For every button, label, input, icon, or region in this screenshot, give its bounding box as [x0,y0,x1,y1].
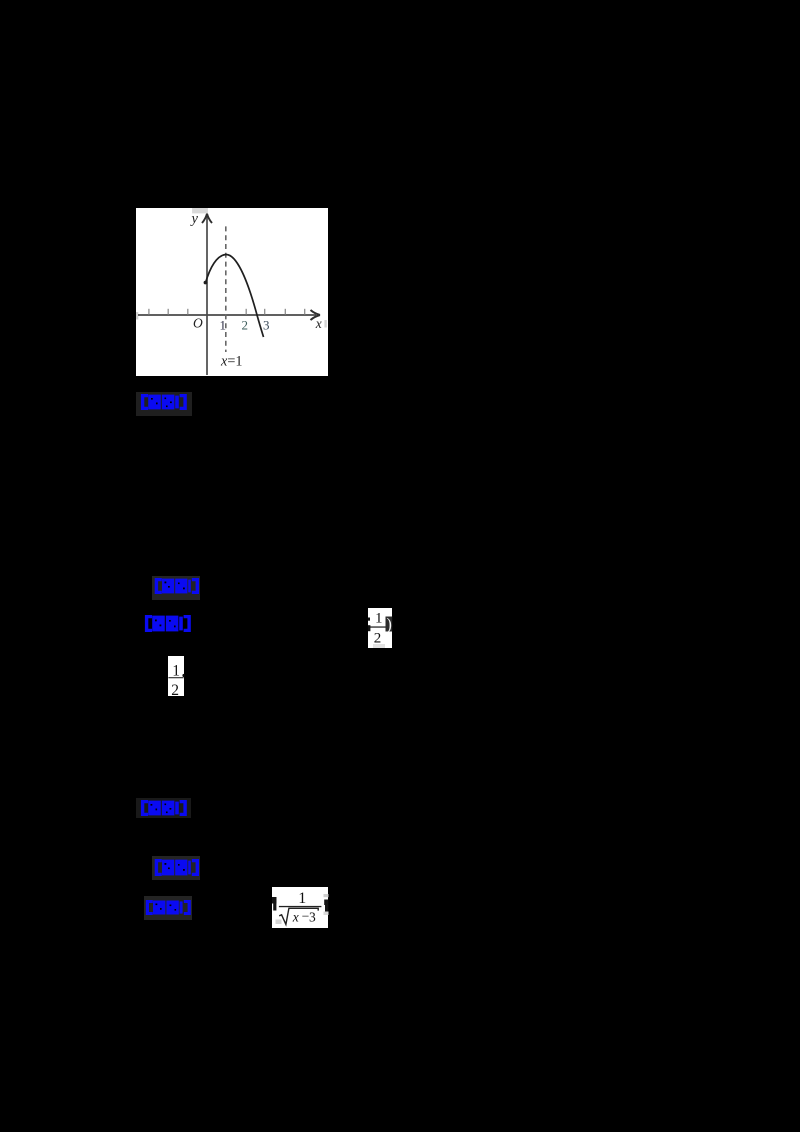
svg-text:1: 1 [220,318,227,333]
fraction 1/2 (first, with inverted paren) [368,608,392,648]
svg-text:x: x [291,910,298,925]
grey smudge right of x label [324,320,326,328]
axis ticks [149,309,305,315]
svg-text:3: 3 [309,910,316,925]
svg-text:): ) [386,614,392,633]
blue label 5 [152,856,200,880]
fraction 1/2 (second) [168,656,184,696]
blue label 4 [136,798,191,818]
dashed line x=1 [225,226,227,352]
blue label 6 [144,896,192,920]
svg-text:x: x [315,316,322,331]
svg-text:1: 1 [298,890,306,907]
grey smudge top of y-axis [192,208,208,213]
svg-text:O: O [193,316,203,331]
blue label 3 [144,615,191,637]
svg-text:3: 3 [263,318,270,333]
grey smudge left edge of x-axis [136,312,138,319]
svg-text:2: 2 [374,630,382,646]
svg-text:x=1: x=1 [220,354,242,370]
svg-text:2: 2 [242,318,249,333]
blue label 2 [152,576,200,600]
svg-text:1: 1 [375,610,383,626]
graph image (white box with parabola figure) [136,208,328,376]
y-axis [206,216,208,375]
blue label 1 [136,392,192,416]
y-axis arrow [202,214,212,223]
svg-text:y: y [190,211,199,227]
curve start blob [204,281,208,285]
fraction 1/sqrt(x-3) [272,887,328,927]
x-axis arrow [311,310,321,320]
parabola curve [206,254,264,337]
svg-text:2: 2 [171,682,179,696]
svg-text:1: 1 [172,663,180,680]
x-axis [138,314,316,316]
